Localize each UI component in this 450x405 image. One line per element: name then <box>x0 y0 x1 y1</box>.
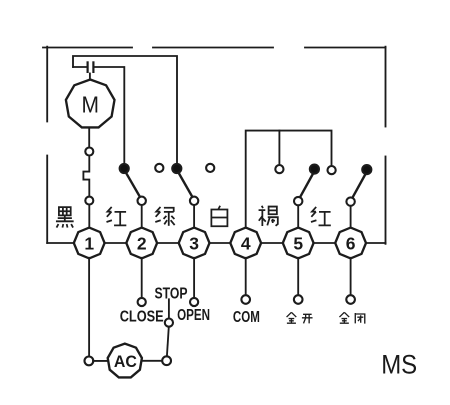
node: AC left circle <box>85 357 94 366</box>
wire: terminal 6 stub down <box>350 258 352 296</box>
node: OPEN terminal circle <box>190 298 198 306</box>
wire: terminal 1 down to AC <box>88 258 90 357</box>
switch S2 NO contact (open) <box>155 164 163 172</box>
enclosure dashed border top <box>43 47 386 49</box>
switch S2 arm <box>126 173 140 198</box>
switch S2 pole node <box>138 197 146 205</box>
svg-text:5: 5 <box>293 233 303 253</box>
wire: bracket middle drop <box>278 131 280 165</box>
node: full-close terminal circle <box>346 295 355 304</box>
terminal 1 <box>74 228 105 259</box>
capacitor C1 <box>88 61 94 73</box>
enclosure dashed border left <box>46 47 48 243</box>
AC source <box>108 344 142 378</box>
switch S2 NC contact (filled) <box>120 164 129 173</box>
svg-text:MS: MS <box>381 350 417 380</box>
node: motor circuit lower circle <box>85 197 93 205</box>
node: limit switch 6 open contact <box>328 166 336 174</box>
wire: switch S5 pole to terminal <box>297 205 299 228</box>
wire: terminal 4 stub down <box>245 258 247 296</box>
label red (hong) <box>106 207 126 225</box>
wire: terminal 3 stub down <box>193 258 195 298</box>
switch S5 pole node <box>294 197 302 205</box>
wire: motor lead to switch 3 contact <box>73 56 177 164</box>
label full-open (quan kai) <box>287 312 313 323</box>
terminal 4 <box>230 228 261 259</box>
node: full-open terminal circle <box>294 295 303 304</box>
wire: to AC source <box>93 360 107 362</box>
wire: terminal 5 stub down <box>297 258 299 296</box>
wire: COM bracket from terminal 4 to limit contacts <box>246 131 332 229</box>
label full-closed (quan bi) <box>339 312 364 323</box>
wire: terminal 2 stub down <box>141 258 143 298</box>
wire: switch S2 pole to terminal <box>141 205 143 228</box>
label red 2 (hong) <box>311 207 331 225</box>
wire: switch S6 pole to terminal <box>350 206 352 229</box>
terminal 3 <box>179 228 210 259</box>
terminal 2 <box>126 228 157 259</box>
terminal 5 <box>283 228 314 259</box>
svg-text:STOP: STOP <box>155 285 188 302</box>
switch S3 arm <box>179 173 193 198</box>
terminal strip wire (bottom row) <box>47 242 385 244</box>
node: CLOSE terminal circle <box>138 298 146 306</box>
motor M <box>66 80 115 128</box>
wire: to terminal 1 <box>88 205 90 229</box>
label brown (he) <box>259 206 278 226</box>
label black (hei) <box>56 207 74 227</box>
svg-text:M: M <box>81 91 99 117</box>
node: AC right circle <box>162 356 171 365</box>
svg-text:1: 1 <box>84 233 94 253</box>
node: COM terminal circle <box>241 295 250 304</box>
wire: motor bottom lead <box>88 129 90 148</box>
svg-text:4: 4 <box>241 233 251 253</box>
thermal protector jog <box>83 156 89 197</box>
wire: riser to stop junction <box>167 327 169 357</box>
wire: STOP stub <box>168 299 170 318</box>
switch S3 pole node <box>190 197 198 205</box>
switch S3 NC contact (filled) <box>172 164 181 173</box>
svg-text:6: 6 <box>346 233 356 253</box>
node: limit switch 5 open contact <box>275 165 283 173</box>
switch S6 contact (filled) <box>362 165 371 174</box>
label green (lv) <box>155 207 174 226</box>
svg-text:CLOSE: CLOSE <box>120 309 164 326</box>
terminal 6 <box>335 228 366 259</box>
svg-text:COM: COM <box>233 309 260 326</box>
wire: capacitor left lead <box>73 66 87 68</box>
switch S5 contact (filled) <box>310 165 319 174</box>
node: STOP junction circle <box>165 319 173 327</box>
switch S6 arm <box>352 174 365 198</box>
switch S5 arm <box>300 174 313 198</box>
wire: motor top lead <box>89 74 91 81</box>
svg-text:OPEN: OPEN <box>177 307 210 324</box>
enclosure dashed border right <box>385 47 387 244</box>
wire: AC right lead <box>143 360 162 362</box>
svg-text:2: 2 <box>137 233 147 253</box>
switch S3 NO contact (open) <box>206 164 214 172</box>
switch S6 pole node <box>346 197 354 205</box>
node: motor circuit upper circle <box>85 148 93 156</box>
svg-text:AC: AC <box>114 352 137 371</box>
wire: capacitor right lead to switch 2 contact <box>94 67 125 164</box>
label white (bai) <box>211 206 227 227</box>
wire: switch S3 pole to terminal <box>193 205 195 228</box>
svg-text:3: 3 <box>189 233 199 253</box>
